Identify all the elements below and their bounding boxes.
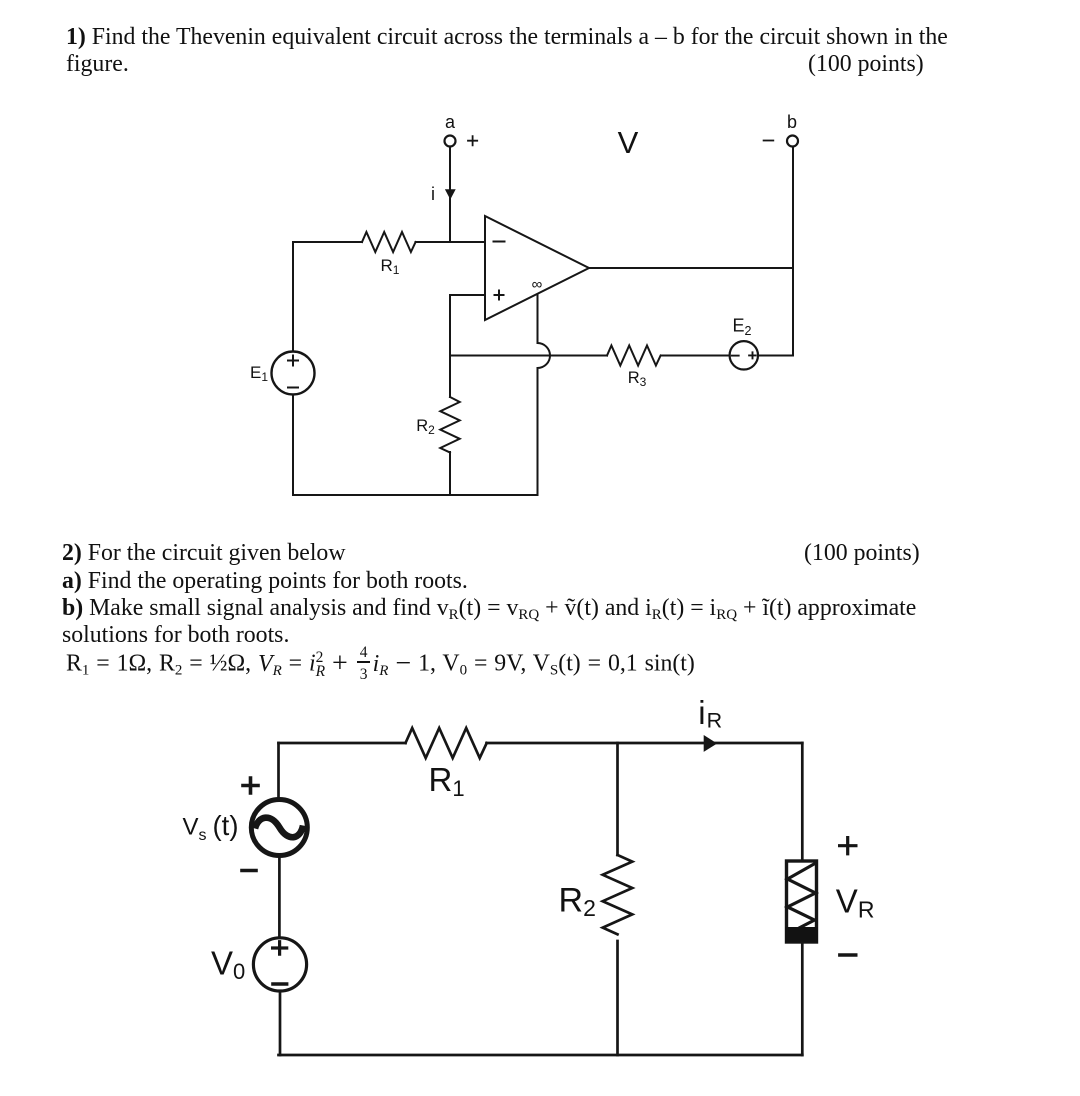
svg-text:R1: R1 [381, 256, 400, 277]
resistor R2 [416, 397, 460, 453]
terminal b [787, 112, 798, 147]
bottom rail circuit 2 [279, 1054, 803, 1057]
svg-text:R3: R3 [628, 369, 647, 389]
label V [618, 125, 639, 160]
svg-text:R2: R2 [559, 882, 596, 921]
source E2 [730, 316, 758, 370]
wire node to R2 [449, 356, 451, 398]
right branch wire upper [801, 743, 804, 861]
current arrow i [431, 184, 456, 204]
resistor R3 [607, 346, 661, 390]
wire E1 top to R1 [293, 241, 362, 243]
svg-text:iR: iR [698, 694, 722, 733]
op-amp U1 [485, 216, 589, 320]
middle branch wire upper [616, 743, 619, 855]
problem 1 text [66, 24, 948, 51]
polarity plus of VR [840, 838, 856, 854]
wire Vs to V0 [278, 858, 281, 938]
right branch wire lower [801, 943, 804, 1055]
middle branch wire lower [616, 941, 619, 1055]
svg-text:R2: R2 [416, 417, 435, 437]
wire R2 to bottom rail [449, 452, 451, 495]
source Vs(t) [183, 800, 308, 856]
wire R1 to op-amp inverting input [416, 241, 486, 243]
polarity plus of Vs [243, 778, 258, 793]
polarity minus of V at terminal b [764, 140, 774, 142]
polarity minus of VR [840, 953, 856, 956]
resistor R1 [362, 232, 416, 277]
svg-text:i: i [431, 184, 435, 204]
top wire right segment [487, 742, 803, 745]
polarity plus of V at terminal a [468, 136, 477, 145]
problem 2 text [62, 540, 346, 567]
source E1 [250, 352, 315, 395]
svg-text:V0: V0 [211, 944, 245, 984]
svg-text:R1: R1 [429, 761, 465, 801]
wire a to inverting-input node [449, 147, 451, 243]
wire V0 to bottom rail [279, 992, 282, 1056]
source V0 [211, 938, 307, 991]
wire R3 to E2 [661, 355, 729, 357]
svg-text:∞: ∞ [532, 276, 543, 293]
wire E2 to b branch [759, 147, 793, 356]
svg-text:Vs(t): Vs(t) [183, 810, 239, 844]
wire op-amp output to node under b [589, 267, 793, 269]
current arrow iR [698, 694, 722, 752]
wire noninverting input [450, 295, 485, 356]
nonlinear resistor VR [785, 861, 818, 943]
svg-text:E2: E2 [733, 316, 752, 339]
terminal a [445, 112, 456, 147]
svg-text:E1: E1 [250, 363, 268, 384]
wire top-left corner [277, 743, 280, 798]
top wire left segment [279, 742, 406, 745]
resistor R1 (circuit 2) [406, 728, 487, 801]
svg-text:VR: VR [836, 883, 875, 923]
wire E1 branch [292, 242, 294, 495]
svg-text:V: V [618, 125, 639, 160]
bottom rail circuit 1 [293, 494, 538, 496]
resistor R2 (circuit 2) [559, 855, 633, 934]
label VR [836, 883, 875, 923]
polarity minus of Vs [242, 869, 256, 873]
svg-text:b: b [787, 112, 797, 132]
op-amp common wire with hop over feedback wire [538, 295, 551, 496]
svg-text:a: a [445, 112, 456, 132]
wire feedback node to R3 [450, 355, 607, 357]
